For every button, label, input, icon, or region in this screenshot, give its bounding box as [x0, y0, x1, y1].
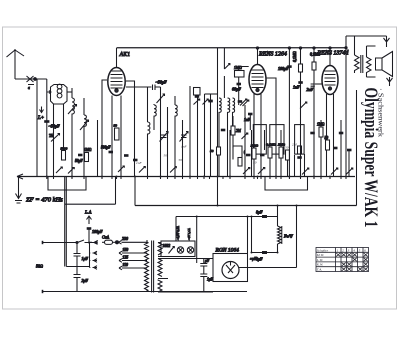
contact arrow f1 [90, 241, 98, 245]
ground GND1 [15, 177, 22, 203]
switch S5a [302, 168, 309, 175]
wire V247 [247, 217, 249, 254]
wire V115 [115, 177, 117, 205]
capacitor C7d [140, 156, 145, 159]
svg-text:L.W.: L.W. [316, 258, 324, 262]
wire V264 [264, 130, 266, 150]
capacitor C8u2 [262, 251, 267, 254]
svg-text:8μF: 8μF [256, 210, 263, 215]
junction dot B346 [345, 47, 347, 49]
capacitor C349 [347, 149, 352, 152]
resistor R9d [298, 146, 302, 154]
capacitor C7a [109, 151, 114, 154]
svg-text:CuA: CuA [102, 235, 110, 240]
wire V346 B+ [345, 36, 347, 177]
svg-text:μF: μF [205, 259, 210, 263]
wire V135b [134, 177, 136, 206]
svg-text:L+: L+ [37, 116, 44, 121]
switch Sm1 [243, 100, 249, 106]
svg-text:125: 125 [123, 256, 129, 260]
box canA [253, 125, 266, 155]
terminal T291 [42, 290, 44, 293]
svg-text:1nF: 1nF [293, 85, 300, 90]
svg-text:100pF: 100pF [278, 66, 289, 71]
switch arm [94, 241, 98, 245]
trimmer T3a [80, 120, 89, 130]
svg-text:RGN 1064: RGN 1064 [215, 247, 240, 254]
svg-text:230: 230 [122, 236, 128, 241]
capacitor Cr1 [200, 264, 207, 267]
coil L3 [84, 98, 86, 177]
wire V341 [340, 120, 342, 177]
capacitor C312 [310, 132, 315, 135]
svg-text:1μF: 1μF [82, 256, 89, 261]
wire V102 [102, 80, 107, 177]
switch S2c [170, 167, 176, 173]
svg-text:1MΩ: 1MΩ [317, 123, 325, 127]
selector 125 [119, 259, 147, 263]
svg-text:M.W.: M.W. [316, 253, 325, 257]
lamp La2 [187, 247, 193, 253]
wire right border [356, 90, 358, 206]
svg-text:6: 6 [364, 248, 366, 252]
wire V176 [175, 217, 177, 242]
capacitor C1n [298, 81, 303, 84]
junction dot [76, 242, 78, 244]
selector 110 [119, 266, 147, 270]
svg-text:2M: 2M [236, 129, 242, 133]
wire grid U3 [315, 83, 323, 85]
wire V37 [36, 79, 38, 177]
capacitor C100b [87, 227, 92, 230]
wire V64 double [65, 177, 67, 267]
tube U2 RENS1264 [249, 47, 266, 95]
box B2 [265, 177, 308, 191]
output transformer T2 [355, 36, 376, 77]
resistor R01M [293, 51, 303, 72]
wire V270 [269, 158, 271, 177]
wire V63 [63, 104, 65, 150]
svg-text:8μF: 8μF [256, 257, 263, 262]
resistor R1c [84, 148, 92, 162]
svg-text:1602: 1602 [163, 244, 171, 248]
terminal Y1 [384, 36, 390, 47]
coil L5 [154, 104, 156, 130]
svg-text:a: a [28, 86, 30, 90]
switch S5c [346, 168, 353, 175]
capacitor C8u1 [262, 215, 267, 218]
wire V97 [97, 120, 99, 177]
svg-text:L.A: L.A [84, 210, 92, 215]
svg-text:50: 50 [325, 136, 329, 140]
rect box RGN [213, 247, 248, 282]
wire V230 [229, 130, 231, 177]
capacitor CSp [195, 95, 200, 98]
anode line U2 [288, 48, 290, 177]
wire H266 [66, 266, 89, 268]
switch S3b [242, 133, 248, 139]
coil L2 [72, 88, 74, 177]
wire V203 [203, 259, 205, 293]
svg-text:ZF = 470 kHz: ZF = 470 kHz [26, 197, 63, 204]
wire V281 [280, 130, 282, 177]
wire V53 [53, 104, 55, 177]
svg-text:1: 1 [337, 248, 339, 252]
box canC [295, 125, 305, 155]
grid box RENS1264 [234, 66, 249, 105]
svg-text:~50pF: ~50pF [49, 124, 61, 129]
trimmer T4 [157, 94, 165, 103]
svg-text:≈μF: ≈μF [250, 256, 257, 261]
terminal Y2 [387, 77, 393, 86]
svg-text:1nF: 1nF [136, 161, 143, 165]
capacitor C7e [158, 152, 163, 155]
svg-text:3: 3 [348, 248, 350, 252]
svg-text:RENS 1264: RENS 1264 [258, 51, 287, 58]
resistor FeW [278, 226, 282, 244]
box B1 [48, 177, 86, 191]
trimmer T6 [180, 132, 189, 142]
switch S2b [139, 167, 145, 173]
svg-text:5000: 5000 [61, 147, 68, 151]
svg-text:K.W.: K.W. [316, 263, 324, 267]
svg-text:50: 50 [210, 149, 214, 153]
contact arrow s1 [90, 251, 98, 255]
svg-text:~6,3V 0,5A: ~6,3V 0,5A [176, 226, 181, 240]
ground bus [17, 176, 355, 178]
switch S3a [240, 99, 247, 106]
capacitor C8a [246, 154, 251, 157]
wire V196 [196, 217, 198, 264]
wire grid AK1 [126, 86, 152, 88]
capacitor C2u [74, 275, 81, 292]
wire L1L2 [67, 91, 72, 93]
fuse CuA [102, 235, 147, 245]
resistor R9c [286, 150, 290, 160]
wire H252 [252, 252, 278, 254]
resistor Rf [238, 158, 242, 167]
transformer T1 [145, 240, 214, 293]
coil L6 [175, 96, 177, 177]
coil L4 [148, 87, 150, 177]
capacitor C335 [333, 147, 338, 150]
switch SSp [194, 99, 200, 105]
wire V209 [210, 94, 212, 177]
svg-text:50: 50 [114, 124, 118, 128]
svg-text:· Sachsenwerk: · Sachsenwerk [377, 88, 385, 138]
svg-text:50pF: 50pF [75, 159, 83, 163]
wire V294c [294, 155, 296, 177]
svg-text:1μF: 1μF [207, 278, 214, 282]
resistor R150 [251, 144, 259, 160]
capacitor C341 [339, 132, 344, 135]
svg-text:1nF: 1nF [181, 145, 188, 149]
resistor R327 [325, 136, 330, 150]
box canB [270, 125, 284, 155]
svg-text:50: 50 [285, 146, 289, 150]
wire V349 [348, 150, 350, 177]
svg-text:2μF: 2μF [82, 278, 89, 283]
capacitor Cr2 [200, 274, 207, 277]
arrow LA [87, 216, 92, 224]
contact arrow s2 [90, 259, 98, 263]
wire V251 [251, 130, 253, 177]
svg-text:50: 50 [164, 154, 168, 158]
wire V300 [300, 48, 302, 177]
svg-text:50: 50 [179, 158, 183, 162]
wire V321 [320, 120, 322, 177]
svg-text:2nF: 2nF [307, 87, 314, 92]
box Sp1 [194, 88, 201, 96]
resistor R50g [210, 147, 221, 155]
svg-text:Schalter: Schalter [317, 248, 329, 252]
capacitor C8b [260, 154, 265, 157]
capacitor C5 [161, 135, 167, 138]
wire V160 [160, 87, 162, 177]
svg-text:50: 50 [253, 161, 257, 165]
lamp La1 [177, 247, 183, 253]
wire V46 [46, 79, 48, 177]
wire V296 [296, 206, 298, 268]
wire H94 [205, 93, 218, 95]
capacitor C7f [186, 149, 191, 152]
svg-text:0,1MΩ: 0,1MΩ [293, 51, 298, 62]
wire V182 [182, 120, 184, 177]
bottom bus [43, 291, 248, 293]
capacitor Cm2 [238, 100, 243, 103]
capacitor C2n [311, 84, 315, 86]
capacitor C50b [153, 85, 161, 91]
switch Sm0 [203, 99, 209, 105]
contact Cf [244, 150, 245, 155]
svg-text:5: 5 [359, 248, 361, 252]
resistor R9b [278, 143, 286, 159]
svg-text:4: 4 [353, 248, 355, 252]
capacitor C7c [133, 159, 138, 162]
svg-text:2M: 2M [292, 143, 297, 147]
box filter [233, 146, 242, 160]
wire V277 [277, 206, 279, 253]
switch S1b [68, 168, 74, 174]
capacitor C7h [173, 157, 178, 160]
bus ticks [47, 177, 346, 180]
arrow L+ [40, 107, 44, 113]
svg-text:100pF: 100pF [92, 229, 103, 234]
wire V224 osc [224, 48, 230, 98]
wire V204 [204, 94, 206, 177]
wire rect out [239, 267, 297, 269]
wire V89b [89, 243, 91, 268]
svg-text:RENS 1374d: RENS 1374d [317, 50, 350, 57]
trimmer T2a [68, 105, 77, 115]
resistor R321 [317, 123, 325, 138]
top bus [117, 47, 347, 49]
resistor R1a [61, 147, 68, 161]
wire V245 [244, 105, 246, 177]
wire plate AK1 [126, 81, 135, 177]
table crosses [336, 253, 368, 271]
trimmer T5 [160, 132, 169, 142]
svg-text:Fe/W: Fe/W [283, 234, 293, 239]
svg-text:150Ω: 150Ω [251, 144, 259, 148]
wire V190 [189, 86, 191, 177]
capacitor C7g [165, 149, 170, 152]
svg-text:150: 150 [123, 248, 129, 252]
coil L1 shielded [47, 84, 67, 104]
capacitor C7b [124, 154, 129, 157]
bus 205 [135, 205, 357, 207]
capacitor C1nf2 [244, 114, 253, 130]
capacitor C6 [181, 135, 187, 138]
wire pins AK1 [112, 96, 121, 177]
capacitor C50a [44, 120, 49, 123]
switch S4b [258, 168, 265, 175]
wire top right [346, 35, 387, 37]
svg-text:~4V 1,1A: ~4V 1,1A [187, 228, 192, 240]
capacitor C60 [237, 83, 242, 86]
resistor R9a [266, 143, 276, 159]
wire pins U2 [254, 94, 261, 177]
tube U3 RENS1374d [322, 47, 338, 95]
wire V197 [197, 95, 199, 177]
svg-text:500pF: 500pF [101, 146, 111, 150]
wire pins U3 [327, 94, 334, 177]
antenna A1 [7, 49, 47, 90]
junction dots lower [88, 205, 298, 254]
coil Losc3 [233, 98, 235, 130]
svg-text:AK1: AK1 [119, 52, 131, 58]
switch S5b [331, 168, 338, 175]
switch S4a [243, 168, 250, 175]
svg-text:60pF: 60pF [232, 87, 241, 92]
speaker LS [376, 52, 393, 77]
svg-text:1MΩ: 1MΩ [84, 148, 92, 152]
svg-text:~50pF: ~50pF [156, 80, 168, 85]
capacitor Cm0 [208, 100, 213, 103]
wire AF line [43, 240, 95, 243]
svg-text:110: 110 [123, 263, 129, 267]
capacitor C9 [297, 156, 302, 159]
table frame [316, 248, 369, 272]
wire V314 [313, 48, 315, 177]
coil Losc1 [219, 98, 221, 177]
wire V251b [251, 217, 253, 253]
switch S1a [56, 167, 62, 173]
potentiometer TA [51, 134, 60, 142]
wire V77 [76, 266, 78, 275]
resistor Rk AK1 [114, 124, 120, 141]
coil Losc2 [228, 98, 230, 177]
selector 150 [119, 251, 147, 255]
capacitor C1b [78, 154, 83, 157]
resistor R2M [231, 116, 242, 148]
wire H204 [65, 203, 116, 205]
wire grid U2 out [266, 78, 276, 177]
tube AK1 [108, 48, 125, 96]
wire V167 [167, 107, 169, 177]
terminal T242 [42, 241, 44, 244]
junction dots on ground bus [46, 176, 347, 178]
capacitor C1u [74, 243, 81, 267]
svg-text:2: 2 [342, 248, 344, 252]
resistor R314 [310, 53, 320, 71]
lamp box [161, 241, 195, 257]
capacitor C100p [287, 65, 292, 68]
bus 216 [176, 216, 278, 218]
wire V89 [88, 230, 90, 243]
contact arrow s3 [90, 266, 98, 270]
svg-text:T.A.: T.A. [317, 268, 323, 272]
tube RGN1064 [222, 262, 239, 279]
wire V217 tall [217, 48, 219, 206]
wire V126 [125, 105, 127, 177]
capacitor Cblob223 [221, 129, 226, 132]
table labels [316, 248, 366, 271]
wire V287 [287, 160, 289, 177]
wire V304 [304, 154, 306, 177]
switch S2a [118, 166, 124, 172]
svg-text:50Ω: 50Ω [36, 264, 43, 269]
switch S6 [300, 102, 307, 109]
